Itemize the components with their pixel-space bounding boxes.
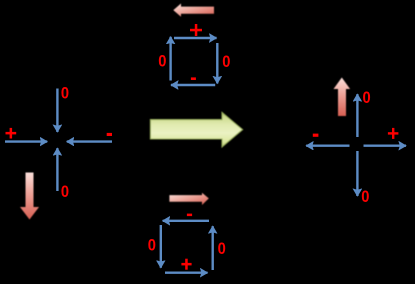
pink arrow down (left group): [20, 173, 39, 220]
node label - (top square bottom): [191, 77, 196, 80]
node label + (top square top): [195, 24, 198, 36]
svg-text:0: 0: [218, 239, 226, 258]
node label - (left cross right): [107, 133, 112, 136]
pink arrow up (right group): [334, 78, 351, 117]
wire bottom-square bottom edge (right): [165, 272, 208, 274]
svg-text:0: 0: [361, 187, 369, 206]
node label - (right cross left): [313, 134, 319, 137]
node label + (left cross left): [10, 128, 13, 139]
wire bottom-square top edge (left): [163, 220, 209, 222]
wire left-cross top arrow (down): [56, 89, 58, 133]
wire top-square right edge (down): [216, 43, 218, 83]
wire bottom-square left edge (down): [160, 225, 162, 268]
wire top-square bottom edge (left): [171, 84, 215, 86]
node label + (bottom square bottom): [185, 259, 188, 270]
wire bottom-square right edge (up): [211, 226, 213, 270]
wire right-cross bottom arrow (down): [356, 151, 358, 196]
svg-text:0: 0: [222, 52, 230, 71]
wire top-square left edge (up): [169, 37, 171, 81]
wire left-cross right arrow (left): [67, 140, 112, 142]
pink arrow left (top group): [173, 4, 214, 17]
svg-text:0: 0: [363, 88, 371, 107]
wire right-cross right arrow (right): [364, 144, 407, 146]
wire right-cross top arrow (up): [356, 94, 358, 137]
wire left-cross bottom arrow (up): [56, 148, 58, 191]
svg-text:0: 0: [61, 84, 69, 103]
pink arrow right (bottom group): [169, 193, 208, 205]
wire right-cross left arrow (left): [306, 144, 349, 146]
node label + (right cross right): [392, 128, 394, 139]
node label - (bottom square top): [187, 214, 192, 217]
wire top-square top edge (right): [174, 37, 217, 39]
svg-text:0: 0: [148, 236, 156, 255]
svg-text:0: 0: [61, 182, 69, 201]
svg-text:0: 0: [158, 51, 166, 70]
wire left-cross left arrow (right): [5, 140, 47, 142]
